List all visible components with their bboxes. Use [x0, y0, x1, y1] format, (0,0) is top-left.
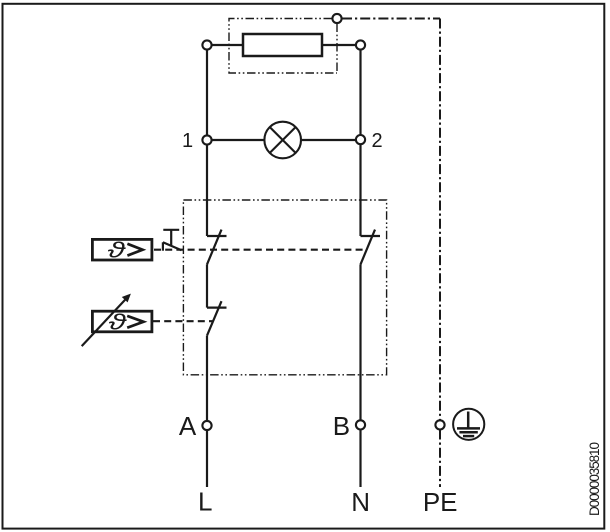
adjustable arrow over controller box [82, 294, 131, 347]
heating element E (resistor) [243, 34, 322, 56]
wire B to N [359, 430, 361, 488]
upper-left contact (NC switch) [207, 230, 227, 265]
node 1 [202, 135, 211, 144]
right contact (NC switch) [361, 230, 381, 265]
wire PE below terminal (dash-dot) [439, 430, 441, 488]
wire right branch lower [359, 264, 361, 421]
node 2 [356, 135, 365, 144]
wire node1 to lamp [212, 139, 264, 141]
signal lamp [264, 122, 301, 159]
wire right branch upper [359, 50, 361, 135]
wire left branch upper [206, 50, 208, 136]
wire A to L [206, 430, 208, 487]
svg-text:N: N [351, 487, 370, 517]
svg-text:1: 1 [182, 130, 193, 152]
node PE top [332, 14, 341, 23]
controller enclosure (dash-dot-dot box) [183, 200, 386, 375]
wire left node to resistor [212, 44, 243, 46]
terminal PE node [435, 420, 444, 429]
wire left branch between contacts [206, 264, 208, 307]
linkage dashed line lower (controller to contact) [153, 320, 214, 322]
node right resistor terminal [356, 40, 365, 49]
terminal B node [356, 420, 365, 429]
linkage dashed line upper (limiter to contacts) [154, 249, 366, 251]
wire left branch to terminal A [206, 336, 208, 422]
wire lamp to node2 [301, 139, 356, 141]
wire right branch middle [359, 144, 361, 236]
svg-text:A: A [179, 411, 197, 441]
svg-text:2: 2 [371, 130, 382, 152]
protective earth symbol [453, 409, 484, 440]
terminal A node [202, 421, 211, 430]
wire PE horizontal (dash-dot) [342, 18, 440, 20]
node left resistor terminal [202, 40, 211, 49]
svg-text:D0000035810: D0000035810 [587, 442, 602, 516]
svg-text:B: B [333, 411, 350, 441]
svg-text:ϑ: ϑ [108, 238, 127, 263]
wire left branch middle [206, 145, 208, 236]
heating element enclosure (dash-dot-dot box) [229, 19, 337, 74]
safety temperature limiter box (ϑ>) [92, 238, 151, 263]
manual reset symbol [163, 230, 182, 251]
lower-left contact (NC switch) [207, 301, 227, 335]
svg-text:L: L [198, 487, 212, 517]
svg-text:PE: PE [423, 487, 458, 517]
wire PE vertical (dash-dot) [439, 19, 441, 421]
wire resistor to right node [322, 44, 355, 46]
temperature controller box (ϑ> adjustable) [92, 310, 151, 335]
